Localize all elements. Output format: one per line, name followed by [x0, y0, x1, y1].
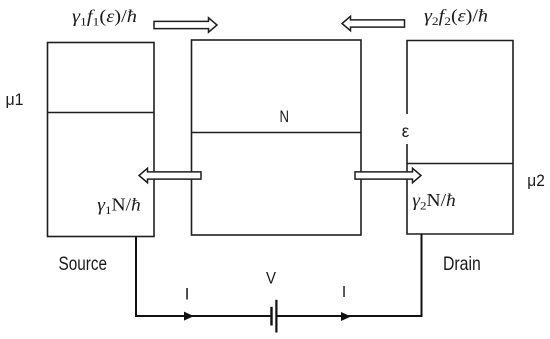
svg-text:N: N	[280, 108, 290, 126]
svg-text:ε: ε	[402, 121, 410, 141]
svg-text:γ1N/ħ: γ1N/ħ	[97, 194, 141, 217]
svg-text:μ2: μ2	[527, 171, 545, 190]
svg-text:I: I	[342, 284, 346, 301]
svg-text:μ1: μ1	[6, 90, 24, 109]
svg-text:I: I	[185, 286, 190, 304]
svg-text:V: V	[266, 270, 276, 288]
svg-text:γ2N/ħ: γ2N/ħ	[412, 190, 456, 213]
svg-text:Drain: Drain	[443, 253, 481, 275]
svg-text:Source: Source	[59, 253, 108, 275]
